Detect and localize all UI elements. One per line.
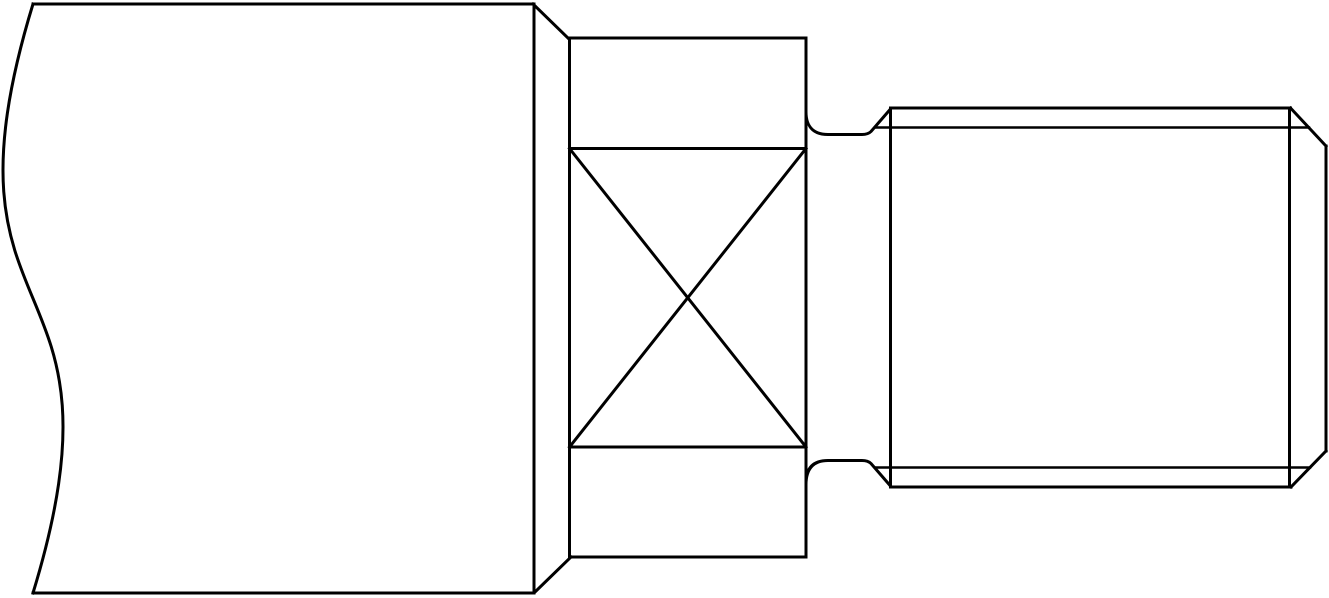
shoulder chamfer top <box>533 4 569 39</box>
bearing seat left edge <box>568 38 571 557</box>
shaft body break line (left S-curve) <box>3 4 63 593</box>
chamfer start line on thread <box>1288 108 1291 487</box>
bearing seat top edge <box>570 37 807 40</box>
thread end face <box>1325 146 1328 451</box>
thread left face edge <box>889 108 892 487</box>
shaft body top edge <box>33 3 533 6</box>
thread minor diameter line top <box>875 126 1309 128</box>
thread minor diameter line bottom <box>875 466 1310 468</box>
thread bottom outline <box>891 486 1292 489</box>
shoulder face (right edge of large diameter) <box>533 4 536 593</box>
thread end chamfer bottom <box>1291 451 1326 487</box>
shaft body bottom edge <box>33 592 534 595</box>
bearing cross diagonal 2 <box>570 149 807 448</box>
thread end chamfer top <box>1291 108 1327 146</box>
thread top outline <box>891 107 1291 110</box>
bearing seat bottom edge <box>570 556 807 559</box>
undercut groove bottom (fillet, relief, run-up) <box>806 461 891 487</box>
bearing top line <box>570 147 807 150</box>
bearing cross diagonal 1 <box>570 149 807 448</box>
bearing bottom line <box>570 446 807 449</box>
shoulder chamfer bottom <box>535 557 571 592</box>
bearing seat right edge <box>805 38 808 557</box>
undercut groove top (fillet, relief, run-up) <box>806 109 891 135</box>
